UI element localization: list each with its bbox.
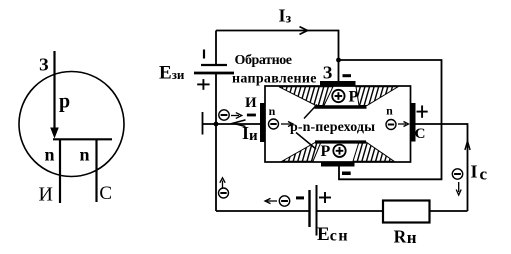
- p-region bottom left wing (hatched): [282, 142, 321, 161]
- gate arrowhead: [50, 128, 59, 139]
- gate electrode bar top: [320, 81, 356, 86]
- electron symbol left bottom: [219, 188, 229, 198]
- resistor Rн: [383, 201, 430, 223]
- minus at bottom gate: [342, 172, 351, 176]
- electron symbol drain side: [452, 169, 462, 179]
- wire end tick: [202, 112, 204, 135]
- battery Есн long plate: [316, 185, 318, 236]
- top p-region bottom border: [315, 105, 367, 108]
- arrow Iс up on wire: [465, 141, 470, 150]
- svg-text:р-n-переходы: р-n-переходы: [290, 120, 375, 135]
- bottom wire: [216, 210, 310, 212]
- arrow on top wire: [300, 27, 308, 35]
- battery Eзи long plate: [194, 72, 234, 75]
- svg-text:Обратное: Обратное: [235, 53, 293, 68]
- svg-text:Р: Р: [349, 89, 359, 106]
- svg-text:Iс: Iс: [471, 162, 488, 184]
- electron symbol near Есн: [279, 196, 289, 206]
- wire left vertical from Eзи: [215, 31, 217, 65]
- bottom p-region top border: [315, 140, 366, 143]
- svg-text:С: С: [415, 126, 426, 142]
- wire source И: [203, 123, 261, 125]
- electron symbol near source wire: [219, 110, 229, 120]
- svg-text:З: З: [39, 55, 49, 75]
- plus-in-circle top: [332, 90, 344, 102]
- source electrode bar И: [260, 103, 265, 142]
- svg-text:И: И: [245, 95, 257, 111]
- plus at drain: [417, 111, 428, 113]
- polarity tick: [203, 50, 205, 59]
- plus at Есн: [319, 197, 331, 199]
- minus at Есн: [296, 196, 304, 199]
- svg-text:n: n: [269, 104, 276, 118]
- svg-text:n: n: [79, 144, 89, 164]
- wire top (gate supply): [216, 31, 339, 82]
- drain electrode bar С: [411, 103, 416, 142]
- transistor symbol circle: [19, 72, 124, 177]
- leader line to bottom junction: [296, 133, 316, 150]
- svg-text:Р: Р: [321, 143, 331, 160]
- wire gate to right side: [339, 60, 442, 179]
- node junction source: [214, 122, 219, 127]
- svg-text:З: З: [323, 63, 333, 83]
- channel bar: [53, 138, 112, 140]
- electron symbol inside left: [269, 119, 279, 129]
- minus at source: [247, 114, 256, 117]
- svg-text:направление: направление: [232, 72, 317, 87]
- gate electrode bar bottom: [321, 162, 355, 167]
- svg-text:p: p: [59, 91, 70, 113]
- node junction gate: [336, 58, 341, 63]
- svg-text:n: n: [44, 145, 54, 165]
- battery Есн short plate: [308, 190, 310, 227]
- wire drain С: [416, 124, 468, 211]
- semiconductor body rectangle: [265, 86, 411, 162]
- svg-text:И: И: [38, 184, 52, 206]
- leader line to top junction: [304, 105, 317, 119]
- electron symbol inside right: [386, 120, 396, 130]
- arrow Iи on wire: [233, 120, 246, 127]
- plus-in-circle bottom: [333, 145, 345, 157]
- svg-text:Rн: Rн: [394, 227, 417, 248]
- drain lead: [95, 139, 97, 202]
- svg-text:n: n: [386, 104, 393, 118]
- minus at top gate: [343, 74, 352, 77]
- source lead: [59, 139, 61, 203]
- battery Eзи short plate: [201, 64, 227, 66]
- svg-text:С: С: [99, 183, 112, 204]
- plus sign Eзи: [197, 83, 209, 85]
- gate lead wire: [53, 51, 55, 130]
- p-region top left wing (hatched): [279, 87, 333, 106]
- p-region top right wing (hatched): [356, 87, 398, 106]
- svg-text:Есн: Есн: [317, 224, 349, 245]
- p-region bottom right wing (hatched): [353, 142, 394, 161]
